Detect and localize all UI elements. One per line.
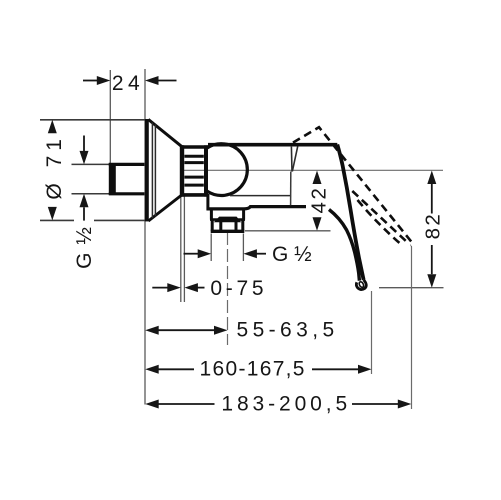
extension lines x=211.2/243.4 (G1/2 bottom dim) bbox=[210, 234, 212, 262]
dim dia71 bbox=[43, 120, 66, 221]
body underside / outlet shoulder bbox=[207, 207, 307, 209]
extension lines x=180.8/184.4 (0-75 dim) bbox=[180, 196, 182, 303]
outlet nut chamfer band bbox=[214, 217, 241, 223]
svg-text:G ½: G ½ bbox=[73, 226, 96, 269]
body joint line bbox=[230, 195, 291, 197]
body left edge below knurl bbox=[206, 194, 209, 210]
svg-text:160-167,5: 160-167,5 bbox=[200, 357, 306, 380]
lever tip end face bbox=[358, 281, 364, 288]
dim 42 bbox=[307, 171, 330, 231]
dim 0-75 bbox=[152, 277, 267, 300]
lever underside bbox=[329, 210, 359, 281]
escutcheon rim lines bbox=[152, 123, 155, 219]
outlet hex nut bbox=[211, 220, 245, 232]
valve ball housing bbox=[207, 144, 247, 196]
svg-text:G ½: G ½ bbox=[272, 243, 312, 266]
extension line x=110 (nipple left / 24 dim) bbox=[109, 70, 111, 163]
svg-text:42: 42 bbox=[307, 185, 330, 213]
body right edge bbox=[290, 172, 292, 206]
outlet flange bbox=[210, 210, 245, 220]
extension line x=411.5 (dashed lever tip, 183 dim) bbox=[411, 247, 413, 410]
handle lever (dashed, open position) bbox=[293, 127, 412, 246]
svg-text:24: 24 bbox=[112, 72, 144, 95]
extension line y=164.4 (nipple top, G1/2 left) bbox=[72, 163, 111, 165]
escutcheon bell face bbox=[147, 119, 183, 221]
dim 82 bbox=[421, 171, 444, 288]
extension line y=220.4 (bell bottom, dia71) bbox=[40, 219, 74, 221]
dim 183-200,5 bbox=[145, 392, 411, 415]
extension line x=145 (wall face, 24/55/160/183 reference) bbox=[144, 69, 146, 405]
centerline y=170.3 (valve axis reference) bbox=[184, 169, 444, 171]
svg-text:0-75: 0-75 bbox=[210, 277, 267, 300]
svg-text:55-63,5: 55-63,5 bbox=[237, 318, 339, 341]
centerline x=227.5 (outlet axis, dashed) bbox=[227, 232, 229, 345]
dim 24 bbox=[83, 72, 177, 95]
extension line x=371.5 (solid lever tip, 160 dim) bbox=[371, 291, 373, 374]
dashed lever underside bbox=[358, 200, 403, 246]
body top bar bbox=[208, 143, 337, 147]
notch between body and handle hub bbox=[290, 147, 293, 172]
dim 160-167,5 bbox=[145, 357, 371, 380]
svg-text:Ø 71: Ø 71 bbox=[43, 134, 66, 200]
knurled adjusting ring bbox=[180, 145, 208, 196]
extension line y=119.8 (bell top, dia71) bbox=[40, 119, 148, 121]
dim 55-63,5 bbox=[145, 318, 338, 341]
dashed lever lower edge bbox=[352, 191, 407, 243]
handle lever (solid, closed position) bbox=[337, 145, 363, 280]
svg-text:183-200,5: 183-200,5 bbox=[221, 392, 351, 415]
lever tip cap bbox=[356, 280, 366, 290]
nipple (G1/2 wall connection pipe) bbox=[109, 163, 145, 195]
extension line y=287.7 (lever bottom, 82 dim) bbox=[379, 287, 444, 289]
extension line y=193.8 (nipple bottom, G1/2 left) bbox=[72, 193, 111, 195]
extension line y=230.8 (outlet bottom, 42 dim) bbox=[245, 230, 331, 232]
dim G1/2 bottom (outlet thread) bbox=[184, 243, 312, 266]
svg-text:82: 82 bbox=[421, 212, 444, 240]
dim G1/2 left (nipple thread) bbox=[73, 136, 96, 269]
